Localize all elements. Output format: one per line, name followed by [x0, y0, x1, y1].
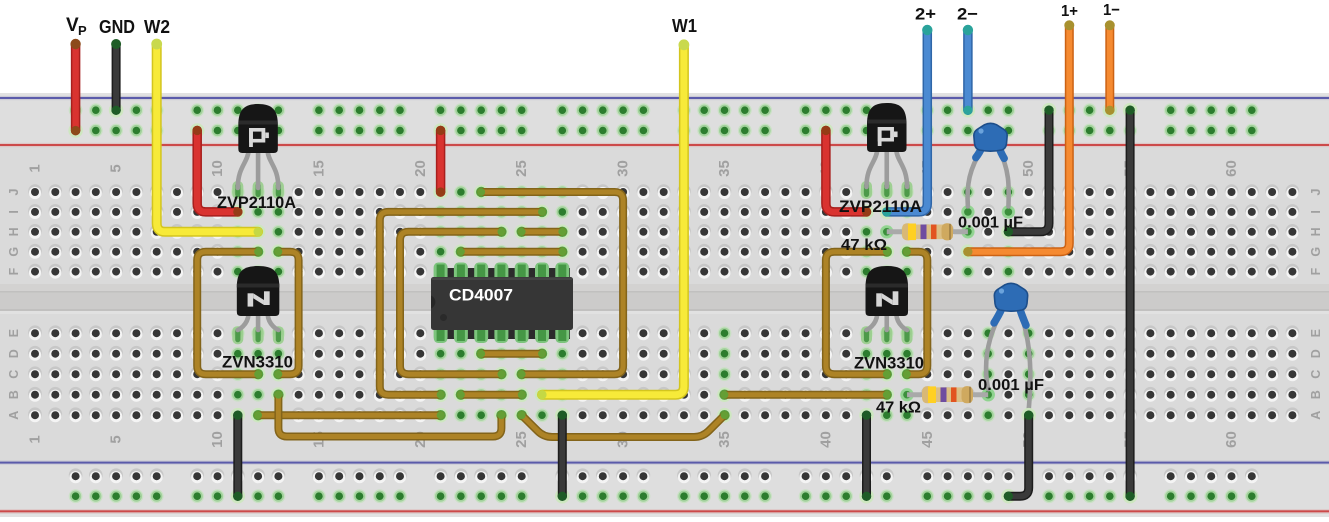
svg-text:0.001 µF: 0.001 µF: [958, 215, 1023, 232]
svg-text:25: 25: [513, 160, 530, 177]
svg-text:40: 40: [817, 431, 834, 448]
svg-text:D: D: [1309, 349, 1323, 358]
svg-text:25: 25: [513, 431, 530, 448]
svg-text:ZVP2110A: ZVP2110A: [839, 197, 922, 216]
svg-text:A: A: [1309, 411, 1323, 420]
svg-text:D: D: [7, 349, 21, 358]
svg-text:35: 35: [716, 431, 733, 448]
svg-text:P: P: [78, 23, 87, 38]
svg-text:I: I: [7, 210, 21, 213]
svg-text:10: 10: [209, 160, 226, 177]
svg-text:G: G: [7, 247, 21, 257]
svg-text:F: F: [7, 267, 21, 275]
svg-text:C: C: [1309, 370, 1323, 379]
svg-text:45: 45: [919, 431, 936, 448]
svg-text:F: F: [1309, 267, 1323, 275]
svg-text:ZVP2110A: ZVP2110A: [217, 193, 296, 212]
svg-text:I: I: [1309, 210, 1323, 213]
svg-text:E: E: [1309, 329, 1323, 337]
svg-text:C: C: [7, 370, 21, 379]
svg-text:20: 20: [412, 160, 429, 177]
svg-text:60: 60: [1223, 431, 1240, 448]
svg-text:5: 5: [108, 164, 125, 172]
svg-text:H: H: [1309, 227, 1323, 236]
svg-text:47 kΩ: 47 kΩ: [841, 237, 887, 254]
svg-text:10: 10: [209, 431, 226, 448]
svg-text:1−: 1−: [1103, 2, 1120, 19]
svg-text:30: 30: [615, 160, 632, 177]
svg-text:W1: W1: [672, 16, 697, 36]
svg-text:B: B: [1309, 390, 1323, 399]
svg-text:35: 35: [716, 160, 733, 177]
svg-text:1+: 1+: [1061, 3, 1078, 20]
svg-text:60: 60: [1223, 160, 1240, 177]
svg-text:2−: 2−: [957, 5, 978, 24]
svg-text:J: J: [7, 188, 21, 195]
svg-text:G: G: [1309, 247, 1323, 257]
svg-text:50: 50: [1020, 160, 1037, 177]
svg-text:H: H: [7, 227, 21, 236]
svg-text:B: B: [7, 390, 21, 399]
svg-text:E: E: [7, 329, 21, 337]
svg-text:2+: 2+: [915, 5, 936, 24]
svg-text:5: 5: [108, 435, 125, 443]
svg-text:J: J: [1309, 188, 1323, 195]
svg-text:47 kΩ: 47 kΩ: [876, 400, 921, 417]
svg-text:CD4007: CD4007: [449, 286, 513, 305]
svg-text:15: 15: [310, 160, 327, 177]
svg-text:W2: W2: [144, 17, 170, 37]
svg-text:A: A: [7, 411, 21, 420]
svg-text:0.001 µF: 0.001 µF: [978, 377, 1044, 394]
svg-text:GND: GND: [99, 17, 135, 37]
svg-text:ZVN3310: ZVN3310: [222, 353, 293, 372]
svg-text:1: 1: [27, 435, 44, 443]
svg-text:ZVN3310: ZVN3310: [854, 354, 924, 373]
svg-text:1: 1: [27, 164, 44, 172]
